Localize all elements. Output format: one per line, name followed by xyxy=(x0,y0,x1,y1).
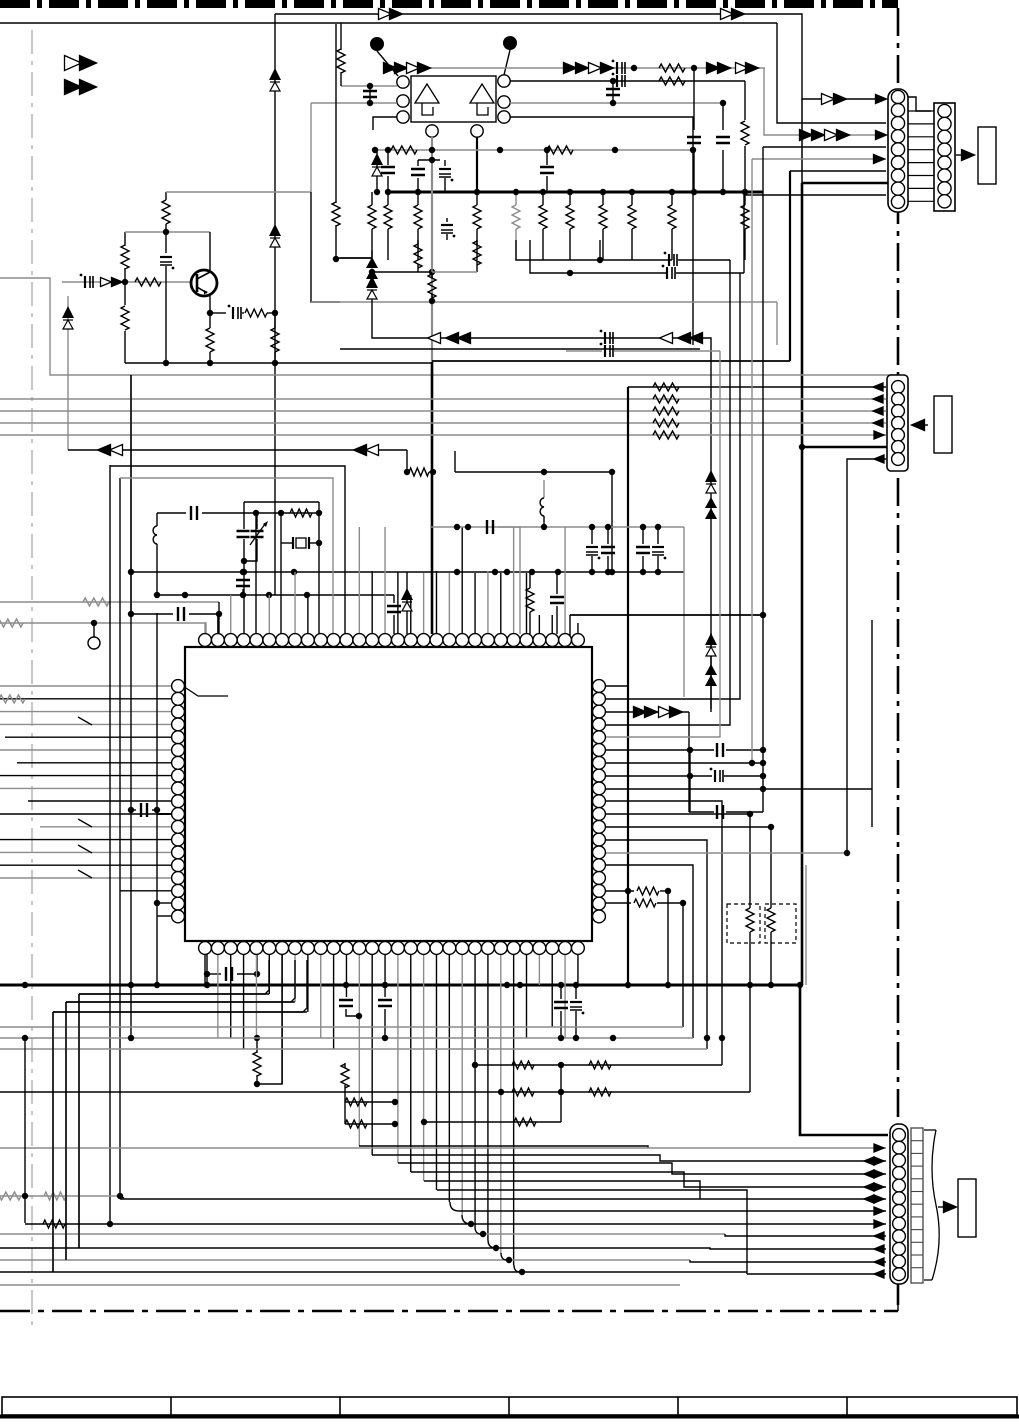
capacitor C 723 xyxy=(722,103,724,130)
polarized capacitor C 166 xyxy=(160,256,172,258)
resistor R y150 left xyxy=(391,146,417,154)
grey rail y1027 xyxy=(0,1026,683,1028)
wire CN1 pin8 row thick xyxy=(802,182,889,185)
wire grey 806 vertical xyxy=(805,865,807,985)
diode D up x275 mid xyxy=(269,224,281,236)
wire y273 right xyxy=(530,240,666,273)
capacitor C 547 xyxy=(546,150,548,165)
resistor R to base xyxy=(135,278,161,286)
connector CN1b body xyxy=(934,103,955,211)
grey rail y1038 xyxy=(0,1037,693,1039)
left pin jogs xyxy=(78,717,92,725)
capacitor C 181 y614 xyxy=(131,613,173,615)
IC1 right pins xyxy=(593,680,606,693)
box wire 110 y466 xyxy=(110,466,345,634)
resistor R 96 y602 xyxy=(0,601,219,603)
U1 pin circles right xyxy=(498,75,510,87)
thick bus y192 xyxy=(387,191,763,194)
resistor R base down xyxy=(124,282,126,305)
capacitor C at 613 xyxy=(612,81,614,103)
legend arrow open-filled xyxy=(65,56,82,71)
capacitor C 394 y608 xyxy=(393,595,395,603)
resistor R 530 y600 xyxy=(529,572,531,588)
wire pin4 down xyxy=(431,137,433,362)
wire CN1 pin9 row xyxy=(744,195,886,273)
diode pair y68 right2 xyxy=(736,63,749,74)
CN3 cable wavy edge xyxy=(932,1130,939,1280)
CN3 row arrows and wires xyxy=(874,1144,884,1152)
connector CN1 body xyxy=(888,89,908,212)
CN3 row 1261 xyxy=(0,1259,690,1261)
wire row 725 up xyxy=(606,260,730,725)
wire x752 grey to CN1 xyxy=(751,159,753,763)
staircase row to CN3 1185 xyxy=(411,1172,886,1187)
wire 157 to pin 814 xyxy=(157,809,160,811)
test point TP2 xyxy=(503,36,517,50)
capacitor C 720 y812 xyxy=(689,811,714,813)
resistor R 648 y891 xyxy=(606,890,634,892)
staircase row 1146 xyxy=(359,1146,648,1148)
resistor R emitter xyxy=(242,312,244,314)
grey fold line vertical xyxy=(31,30,33,1327)
vertical bus x157 xyxy=(156,613,158,985)
black rail y1092 xyxy=(0,1091,750,1093)
diode up stack x372 xyxy=(366,257,378,268)
thick wire x790 xyxy=(789,171,791,361)
polarized capacitor C 445 lower xyxy=(441,224,453,226)
wire pin 827 row xyxy=(606,827,771,904)
wire 157 to pin 903 xyxy=(154,900,160,906)
thick wire x432 xyxy=(431,362,434,634)
wire 765 corner to conn xyxy=(764,68,886,135)
resistor R row 435 xyxy=(653,431,679,439)
IC1 bottom pins xyxy=(199,942,212,955)
legend arrow filled-filled xyxy=(65,80,82,95)
wire y81 from opamp xyxy=(510,80,745,82)
step lines under bus xyxy=(79,993,269,995)
wire y472 segment xyxy=(454,451,456,472)
page border right dash-dot xyxy=(897,8,900,1311)
crystal X1 xyxy=(280,513,282,543)
wire grey transistor base xyxy=(62,281,192,283)
grey rail y1049 xyxy=(0,1048,707,1050)
wire pin5 down xyxy=(476,137,478,192)
wire grey y103 opamp right xyxy=(510,102,723,104)
arrow to label box CN3 xyxy=(938,1206,954,1208)
box wire right x311 xyxy=(311,192,340,302)
page border top dash-dot xyxy=(0,0,898,8)
resistor R 301 y513 xyxy=(290,509,312,517)
diode pair y135 open xyxy=(825,130,838,141)
resistor R 8 y623 xyxy=(0,619,23,627)
diode stack x711 upper xyxy=(705,470,717,482)
diode D up x275 top xyxy=(269,68,281,80)
op-amp A triangle xyxy=(415,84,439,115)
transistor Q1 xyxy=(191,270,217,296)
resistor R base up xyxy=(124,268,126,282)
wire y572 rail xyxy=(131,571,684,573)
diode up 407 xyxy=(406,572,408,634)
thick y361 corner xyxy=(432,360,790,362)
polarized capacitor C 443 xyxy=(442,165,444,167)
diode pair D open-filled y68 mid xyxy=(589,63,602,74)
IC1 left pins xyxy=(172,680,185,693)
resistor R row 387 xyxy=(653,383,679,391)
CN3 flat cable strip xyxy=(911,1128,923,1283)
wire y1196 rail xyxy=(0,1195,120,1197)
polarized capacitor C 576 y1005 xyxy=(575,985,577,999)
CN3 row 1249 xyxy=(0,1248,886,1249)
wire row 737 grey up xyxy=(606,351,720,737)
connector CN3 body xyxy=(890,1124,908,1284)
transistor collector wire xyxy=(209,232,211,271)
resistor R y699 left xyxy=(0,695,25,703)
inductor L 544 xyxy=(543,480,545,498)
signal arrow pair right xyxy=(721,9,734,20)
thick wire to CN3 pin1 xyxy=(800,985,888,1135)
op-amp B triangle xyxy=(470,84,494,115)
capacitor C 194 y513 xyxy=(157,512,186,514)
staircase row to CN3 1161 xyxy=(372,1155,886,1161)
left stub verticals xyxy=(52,1012,54,1272)
capacitor C left of opamp xyxy=(369,86,371,103)
wire y450 arrows xyxy=(68,449,407,451)
wire right pin row 699 xyxy=(606,273,740,699)
CN3 pin circles xyxy=(893,1129,906,1142)
wire y272 segment xyxy=(372,271,432,273)
staircase row 1181 xyxy=(424,1181,700,1199)
wire x684 down xyxy=(683,527,685,697)
resistor R row 399 xyxy=(653,395,679,403)
wire x281 to pin xyxy=(280,543,282,634)
polarized capacitor C 718 y776 xyxy=(606,775,712,777)
test point TP1 xyxy=(370,37,384,51)
wire 600 y260 up xyxy=(599,240,601,260)
vertical x166 chain xyxy=(165,192,167,200)
diode y338 right xyxy=(660,333,673,344)
wire x763 vertical xyxy=(762,147,764,615)
wire to pin 916 xyxy=(157,915,172,917)
wire grey left opamp lower xyxy=(311,102,397,104)
wire y272 grey right xyxy=(432,271,477,273)
thick ground bus y985 xyxy=(0,984,800,987)
left pin wires xyxy=(0,685,172,687)
wire pin 865 row xyxy=(606,865,693,1038)
wire y117 opamp right xyxy=(510,117,693,345)
test point open circle xyxy=(91,620,97,626)
resistor R row 423 xyxy=(653,419,679,427)
wire x372 top xyxy=(340,257,372,259)
wire vertical x275 xyxy=(274,14,276,595)
wire grey left opamp upper xyxy=(341,85,397,87)
arrowhead into CN pin4 xyxy=(876,131,887,140)
wire x256 to pin xyxy=(255,513,257,634)
CN1b pin circles xyxy=(938,104,951,117)
capacitor C 694 xyxy=(693,68,695,130)
connector CN2 body xyxy=(887,375,908,471)
dashed box R left xyxy=(727,904,760,943)
wire into pin3 xyxy=(373,117,397,130)
left stub verticals xyxy=(52,1012,54,1272)
bottom bundle elbows xyxy=(450,1202,459,1211)
resistor R in dashed box right xyxy=(770,904,772,908)
U1 pin circles left xyxy=(397,76,409,88)
label box CN3 xyxy=(958,1179,976,1237)
bus y338 with arrows xyxy=(372,295,711,709)
resistor R 432 mid xyxy=(431,272,433,278)
polarized capacitor C emitter xyxy=(210,312,226,314)
capacitor C 229 y974 xyxy=(206,948,208,985)
box wire 120 y478 xyxy=(120,478,333,634)
wire y459 CN2 pin7 xyxy=(847,459,886,853)
trimmer bottom wire xyxy=(244,539,257,561)
polarized capacitor C y68 xyxy=(616,62,618,74)
CN1-CN1b link wires xyxy=(908,110,934,112)
vertical bus x120 xyxy=(119,478,121,1196)
transistor emitter wire xyxy=(209,295,211,313)
wire y110 CN1 pin2 jog xyxy=(908,97,931,111)
capacitor C 557 y600 xyxy=(556,572,558,594)
signal arrow pair top xyxy=(379,9,392,20)
thick wire y447 CN2 pin6 xyxy=(802,446,887,448)
ground rail y363 xyxy=(125,362,432,364)
diode pair open-filled y99 xyxy=(822,94,835,105)
polarized capacitor C 672 y273 xyxy=(666,267,668,279)
top box wire y192 xyxy=(166,191,311,193)
resistor R in dashed box left xyxy=(749,904,751,908)
wire x25 chain xyxy=(24,1038,26,1196)
wire grey diode chain y68 xyxy=(398,67,765,69)
grey rail y1148 xyxy=(0,1147,886,1149)
step lines under bus xyxy=(79,960,269,994)
wire grey 432 vert xyxy=(431,240,433,272)
bus y349 xyxy=(340,348,700,350)
wire x319 down xyxy=(318,502,320,543)
capacitor bank y550 xyxy=(591,527,593,544)
resistor R 477 top xyxy=(476,240,478,245)
staircase row 1190 xyxy=(437,1190,747,1274)
label box CN1 xyxy=(978,127,996,184)
capacitor C 490 y527 xyxy=(487,520,493,534)
staircase row to CN3 1173 xyxy=(398,1163,886,1174)
wire x872 vertical xyxy=(871,620,873,827)
wire y260 right xyxy=(516,240,672,260)
diode pair D filled y68 left xyxy=(384,63,397,74)
rail y1272 xyxy=(0,1271,747,1273)
top pin verticals xyxy=(204,623,206,634)
dashed box R right xyxy=(765,904,796,943)
wire x244 down to pin xyxy=(243,561,245,634)
resistor R vert 745 xyxy=(744,81,746,120)
bottom pin verticals xyxy=(204,955,206,985)
wire 520 corner xyxy=(498,527,520,634)
wire x802 down xyxy=(801,99,803,183)
U1 pin circles bottom xyxy=(426,125,438,137)
wire pin 789 row xyxy=(606,788,872,790)
CN3 row 1274 xyxy=(747,1273,886,1275)
resistor R row 411 xyxy=(653,407,679,415)
wire x336 to diode stack xyxy=(336,257,372,259)
wire y150 resistor row xyxy=(375,149,693,151)
op-amp IC U1 body xyxy=(411,76,496,122)
diode chain pin712 xyxy=(606,711,689,713)
wire y14 to connector xyxy=(275,14,886,99)
wire pin 814 row xyxy=(606,814,750,904)
resistor R 645 y903 xyxy=(606,902,631,904)
CN3 row 1236 xyxy=(0,1233,725,1235)
wire row 763 xyxy=(606,762,763,764)
vertical resistors row under bus xyxy=(371,192,373,205)
capacitor C 346 y1003 xyxy=(339,1000,353,1006)
osc box top wire xyxy=(244,501,319,503)
wire CN1 pin5 row xyxy=(763,146,886,148)
diode up 377 xyxy=(376,150,378,192)
resistor chain x257 xyxy=(254,1035,260,1041)
wire grey y623 xyxy=(0,623,206,634)
corner 407 resistor xyxy=(406,450,408,472)
rail y1285 grey xyxy=(0,1284,680,1286)
inductor L 157 xyxy=(156,513,158,526)
wire from left edge y278 xyxy=(0,278,131,375)
arrow to label box CN1 xyxy=(956,154,972,156)
CN3 row 1210 xyxy=(459,1210,886,1212)
polarized capacitor C y351 xyxy=(604,345,606,357)
capacitor C 385 y1003 xyxy=(378,1000,392,1006)
wire y123 to CN1 pin3 xyxy=(777,23,886,123)
capacitor C fixed 243 xyxy=(243,502,245,529)
wire corner to pin 801 xyxy=(28,789,172,801)
arrowheads into CN2 xyxy=(873,383,883,391)
resistor R x336 xyxy=(335,24,337,203)
capacitor C 561 y1005 xyxy=(560,985,562,999)
wire pin 853 row grey xyxy=(606,852,847,854)
trimmer capacitor CT 257 xyxy=(256,513,258,529)
page border bottom dash-dot xyxy=(0,1310,898,1313)
IC1 pin1 marker xyxy=(186,688,228,696)
diode up 68 xyxy=(67,296,69,450)
resistor row y1065 xyxy=(475,1064,722,1066)
wire 689 down xyxy=(688,712,690,812)
wire y615 horiz xyxy=(569,615,571,637)
wire y527 rail xyxy=(430,526,684,528)
wire x320 to pin xyxy=(318,543,320,634)
polarized capacitor C y81 xyxy=(616,75,618,87)
vertical bus x110 xyxy=(109,465,111,1223)
thick rail x802 xyxy=(801,183,804,985)
left small resistors xyxy=(345,1101,395,1103)
resistor R 418 vert top xyxy=(417,240,419,248)
wire CN1 pin7 row xyxy=(790,170,886,172)
bus rows to CN2 xyxy=(628,386,886,388)
wire pin 840 row xyxy=(606,840,707,1049)
CN3 row 1198 xyxy=(120,1198,886,1200)
CN2 pin circles xyxy=(892,381,905,394)
capacitor C 243 y583 xyxy=(236,580,250,586)
resistor R y68 xyxy=(659,64,685,72)
wire right pin row 686 xyxy=(606,685,628,687)
arrowhead into CN pin1 xyxy=(876,95,887,104)
wire CN1 pin6 row grey xyxy=(752,158,886,160)
CN3 row 1224 xyxy=(25,1223,886,1225)
wire top horizontal y23 xyxy=(0,22,777,24)
diode pair y68 right xyxy=(707,63,720,74)
resistor row y1122 xyxy=(424,1121,561,1123)
resistor R y81 xyxy=(659,77,685,85)
capacitor C 388 xyxy=(387,150,389,165)
grey wire y232 xyxy=(125,231,210,233)
wire x131 long xyxy=(130,375,132,614)
wire x763 segment xyxy=(762,615,764,812)
vertical bus x131 xyxy=(130,375,132,1038)
polarized capacitor C base xyxy=(84,276,86,288)
diode pair D filled y68 mid xyxy=(564,63,577,74)
IC1 top pins xyxy=(199,634,212,647)
polarized capacitor C 672 y260 xyxy=(668,254,670,266)
IC IC1 body xyxy=(185,647,592,941)
wire row 750 cap xyxy=(606,749,690,751)
resistor row y1092 parts xyxy=(512,1088,534,1096)
CN1 pin circles xyxy=(891,90,904,103)
vertical x628 xyxy=(627,387,629,985)
diode pair D open-filled y68 left xyxy=(407,63,420,74)
wire 690 down xyxy=(689,750,691,812)
wire pin 801 row xyxy=(606,801,722,1065)
diode pair y135 xyxy=(800,130,813,141)
diode arrow base xyxy=(101,278,112,287)
resistor R y150 right xyxy=(547,146,573,154)
label box CN2 xyxy=(934,396,952,453)
diode stack x711 xyxy=(710,633,712,712)
resistor R 275 down xyxy=(274,313,276,328)
wire x219 to pin xyxy=(218,602,220,634)
arrow from label box CN2 xyxy=(912,424,928,426)
wire y595 rail xyxy=(157,594,394,596)
capacitor C 144 y810 xyxy=(128,807,134,813)
title block table xyxy=(2,1397,1017,1415)
polarized capacitor C y338 xyxy=(604,332,606,344)
wire x612 xyxy=(611,472,613,572)
resistor R 210 down xyxy=(209,313,211,328)
capacitor C 418 xyxy=(417,160,419,166)
resistor R left edge xyxy=(340,23,342,50)
CN3 bottom stub xyxy=(897,1284,899,1311)
